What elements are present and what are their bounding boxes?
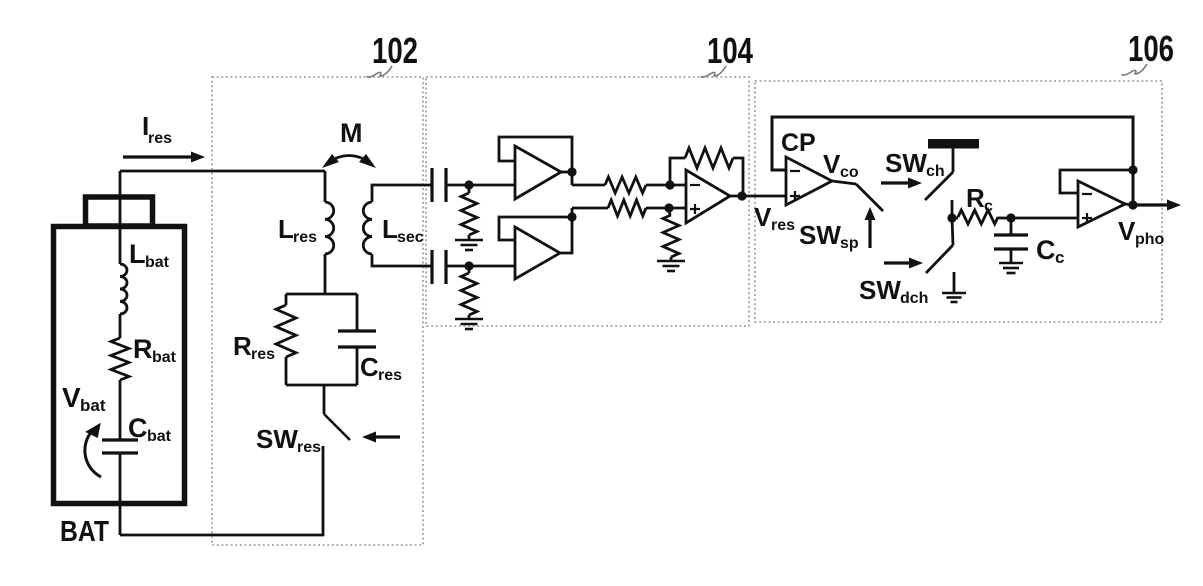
svg-text:res: res bbox=[771, 217, 795, 234]
svg-text:R: R bbox=[233, 331, 252, 361]
resistor R_res bbox=[276, 305, 296, 357]
wire R_bat to C_bat bbox=[119, 380, 122, 440]
svg-text:C: C bbox=[128, 413, 148, 443]
arrow SW_res bbox=[376, 435, 400, 438]
buffer amp U2 bbox=[515, 227, 560, 279]
arrow SW_ch bbox=[881, 181, 908, 184]
svg-text:res: res bbox=[148, 130, 172, 147]
feedback wire U4 bbox=[1060, 170, 1133, 193]
charge supply bar bbox=[928, 139, 979, 149]
node cap2 junction bbox=[464, 261, 473, 270]
node R_c left bbox=[947, 213, 956, 222]
svg-text:c: c bbox=[984, 198, 993, 215]
ground C_c bbox=[999, 262, 1023, 265]
arrow output V_pho bbox=[1125, 204, 1133, 205]
feedback wire U2 bbox=[499, 217, 572, 253]
inductor L_res bbox=[324, 171, 327, 202]
wire U1 to series resistor bbox=[572, 184, 605, 187]
svg-text:102: 102 bbox=[372, 30, 418, 71]
leader 106 bbox=[1122, 64, 1147, 75]
capacitor C_bat bbox=[102, 438, 138, 441]
ground top input bbox=[455, 239, 483, 242]
wire R_c to op-amp U4 bbox=[1011, 217, 1078, 220]
svg-text:dch: dch bbox=[900, 290, 928, 307]
capacitor C_c bbox=[1010, 218, 1013, 235]
switch SW_dch blade bbox=[926, 245, 953, 273]
dotted box 104 bbox=[426, 77, 749, 326]
leader 104 bbox=[701, 66, 726, 77]
wire to op-amp minus node bbox=[646, 184, 686, 187]
node U3 output bbox=[737, 191, 746, 200]
op-amp U4 bbox=[1078, 181, 1125, 227]
resistor R_c bbox=[952, 217, 958, 220]
svg-text:V: V bbox=[62, 382, 81, 413]
dotted box 106 bbox=[755, 81, 1162, 322]
arrow SW_dch bbox=[884, 261, 909, 264]
svg-text:BAT: BAT bbox=[60, 516, 109, 548]
svg-text:C: C bbox=[1036, 235, 1056, 265]
wire SW_dch upper terminal bbox=[952, 218, 953, 245]
switch SW_res blade bbox=[324, 414, 350, 440]
svg-text:bat: bat bbox=[147, 428, 172, 445]
wire CP output bbox=[832, 181, 856, 184]
wire U3 output to CP bbox=[730, 195, 786, 198]
svg-text:SW: SW bbox=[256, 424, 298, 454]
shunt resistor top input bbox=[468, 185, 471, 193]
node U2 output bbox=[567, 212, 576, 221]
ground op-amp plus bbox=[657, 260, 685, 263]
wire to op-amp plus node bbox=[646, 207, 686, 210]
series resistor upper bbox=[605, 177, 646, 193]
resistor R_bat bbox=[111, 338, 129, 380]
arrow SW_sp bbox=[868, 220, 871, 248]
svg-text:V: V bbox=[1118, 216, 1136, 246]
dotted box 102 bbox=[212, 77, 423, 545]
switch SW_sp blade bbox=[856, 184, 883, 211]
wire bottom rail bbox=[120, 446, 323, 535]
wire cap2 to amp U2 bbox=[446, 265, 515, 268]
wire cap1 to amp U1 bbox=[446, 184, 515, 187]
svg-text:res: res bbox=[251, 346, 275, 363]
svg-text:106: 106 bbox=[1128, 28, 1174, 69]
svg-text:res: res bbox=[378, 367, 402, 384]
op-amp U3 bbox=[686, 170, 730, 223]
svg-text:SW: SW bbox=[885, 148, 927, 178]
U3 plus sign bbox=[690, 208, 700, 210]
wire bar stem bbox=[952, 148, 955, 172]
svg-text:ch: ch bbox=[926, 163, 945, 180]
svg-text:C: C bbox=[360, 352, 379, 382]
svg-text:bat: bat bbox=[80, 396, 106, 415]
wire RC block to switch bbox=[323, 385, 326, 414]
svg-text:bat: bat bbox=[152, 349, 177, 366]
inductor L_sec bbox=[372, 185, 432, 202]
U4 plus sign bbox=[1082, 217, 1092, 219]
svg-text:R: R bbox=[966, 183, 985, 213]
wire L_bat to R_bat bbox=[119, 314, 122, 338]
feedback wire U1 bbox=[499, 137, 572, 185]
capacitor C_res bbox=[338, 329, 376, 332]
wire U2 to series resistor bbox=[572, 207, 608, 210]
svg-text:pho: pho bbox=[1135, 231, 1165, 248]
svg-text:SW: SW bbox=[859, 275, 901, 305]
svg-text:V: V bbox=[754, 202, 772, 232]
series resistor lower bbox=[608, 200, 646, 216]
R_res C_res parallel block wires bbox=[286, 293, 357, 296]
feedback resistor op-amp U3 bbox=[670, 158, 685, 185]
leader 102 bbox=[367, 66, 392, 77]
capacitor 104 input bottom bbox=[430, 250, 433, 284]
svg-text:co: co bbox=[840, 164, 859, 181]
svg-text:L: L bbox=[129, 239, 146, 269]
U3 minus sign bbox=[690, 184, 700, 186]
ground SW_dch bbox=[953, 272, 956, 293]
svg-text:CP: CP bbox=[781, 129, 816, 157]
svg-text:c: c bbox=[1055, 248, 1064, 267]
CP plus sign bbox=[790, 195, 800, 197]
node cap1 junction bbox=[464, 180, 473, 189]
inductor L_bat bbox=[120, 264, 127, 314]
comparator CP bbox=[786, 157, 832, 205]
svg-text:M: M bbox=[340, 118, 363, 148]
node U4 output bbox=[1128, 200, 1137, 209]
mutual coupling arrow M bbox=[327, 156, 371, 164]
svg-text:SW: SW bbox=[799, 220, 841, 250]
svg-text:104: 104 bbox=[707, 30, 753, 71]
shunt resistor bottom input bbox=[468, 266, 471, 273]
wire C_bat to bottom rail bbox=[119, 453, 122, 535]
CP minus sign bbox=[790, 170, 800, 172]
arrow I_res bbox=[123, 155, 191, 158]
svg-text:sec: sec bbox=[397, 229, 424, 246]
battery box BAT bbox=[54, 227, 185, 504]
node op-amp plus bbox=[664, 203, 673, 212]
battery terminal bump bbox=[86, 197, 153, 226]
wire battery positive terminal stem bbox=[119, 171, 122, 264]
svg-text:V: V bbox=[823, 149, 841, 179]
svg-text:res: res bbox=[293, 229, 317, 246]
wire SW_ch lower terminal bbox=[951, 200, 954, 218]
svg-text:bat: bat bbox=[145, 254, 170, 271]
wire CP top feedback rail bbox=[772, 117, 1133, 205]
node U4 feedback top bbox=[1128, 165, 1137, 174]
wire top rail from battery to L_res bbox=[120, 170, 325, 173]
buffer amp U1 bbox=[515, 146, 561, 199]
ground bottom input bbox=[455, 318, 483, 321]
capacitor 104 input top bbox=[430, 168, 433, 202]
U4 minus sign bbox=[1082, 193, 1092, 195]
V_bat curved arrow bbox=[85, 431, 101, 477]
switch SW_ch blade bbox=[925, 172, 953, 200]
node U1 output bbox=[567, 167, 576, 176]
node op-amp minus bbox=[665, 180, 674, 189]
svg-text:res: res bbox=[297, 439, 321, 456]
node R_c right bbox=[1006, 213, 1015, 222]
svg-text:L: L bbox=[278, 214, 294, 244]
svg-text:sp: sp bbox=[840, 235, 859, 252]
shunt resistor op-amp plus bbox=[669, 208, 670, 215]
svg-text:L: L bbox=[382, 214, 398, 244]
svg-text:R: R bbox=[133, 334, 153, 364]
